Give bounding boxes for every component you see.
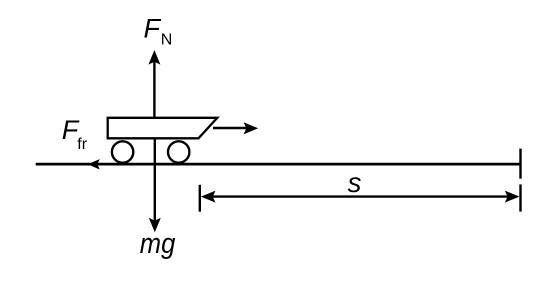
s dimension line (206, 195, 514, 197)
wheel left (112, 141, 133, 162)
weight arrow mg (downward) (149, 138, 161, 232)
svg-text:F: F (144, 13, 162, 43)
motion arrow (to the right of cart) (213, 122, 258, 134)
s dimension right arrowhead (505, 191, 520, 203)
ground line (36, 163, 520, 166)
s dimension right tick (519, 184, 521, 211)
svg-text:N: N (161, 31, 173, 48)
svg-text:fr: fr (77, 136, 87, 153)
cart body (108, 118, 218, 139)
right tick across ground line (519, 149, 521, 179)
friction arrowhead (points left along ground) (88, 159, 100, 169)
force arrow F_N (normal force, upward) (148, 50, 160, 118)
wheel right (168, 141, 189, 162)
s dimension left arrowhead (201, 191, 216, 203)
svg-text:mg: mg (140, 228, 176, 260)
svg-text:s: s (348, 167, 362, 198)
s dimension left tick (199, 185, 201, 212)
